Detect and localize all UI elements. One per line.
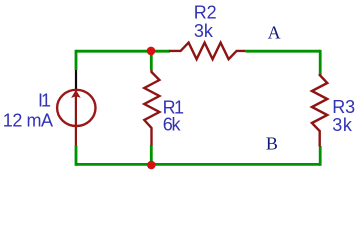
label 6k xyxy=(163,115,182,135)
svg-text:R2: R2 xyxy=(194,3,217,23)
resistor R2 zigzag xyxy=(169,43,246,60)
svg-text:A: A xyxy=(268,23,281,43)
label 3k of R2 xyxy=(194,21,214,41)
svg-text:R3: R3 xyxy=(332,97,355,117)
wire right vertical lower green xyxy=(319,146,322,166)
label R2 xyxy=(194,3,217,23)
svg-text:6k: 6k xyxy=(163,115,182,135)
wire left vertical terminal black xyxy=(75,70,77,89)
svg-text:B: B xyxy=(266,133,278,153)
node B label xyxy=(266,133,278,153)
junction dot top (node between R1 R2) xyxy=(147,47,156,56)
label R1 xyxy=(163,98,184,118)
wire top right: node A rail xyxy=(246,50,320,53)
wire middle vertical lower green xyxy=(150,145,153,164)
label R3 xyxy=(332,97,355,117)
label 12 mA xyxy=(3,111,53,131)
resistor R3 zigzag xyxy=(312,74,327,147)
svg-text:I1: I1 xyxy=(38,91,51,111)
label 3k of R3 xyxy=(332,115,353,135)
label I1 xyxy=(38,91,51,111)
wire left vertical upper xyxy=(75,50,78,70)
wire top left: node top rail left of junction xyxy=(76,50,170,53)
current source I1 arrow xyxy=(72,91,79,97)
svg-text:12 mA: 12 mA xyxy=(3,111,53,131)
current source I1 circle xyxy=(57,90,95,126)
wire middle vertical upper green xyxy=(150,51,153,70)
svg-text:3k: 3k xyxy=(194,21,214,41)
wire left vertical lower green xyxy=(75,145,78,166)
node A label xyxy=(268,23,281,43)
svg-text:3k: 3k xyxy=(332,115,353,135)
wire bottom: node B rail xyxy=(76,163,320,166)
wire left vertical lower lead maroon xyxy=(75,96,77,146)
wire right vertical upper green xyxy=(319,50,322,75)
junction dot bottom (node B junction) xyxy=(147,161,156,170)
resistor R1 zigzag xyxy=(144,70,159,145)
